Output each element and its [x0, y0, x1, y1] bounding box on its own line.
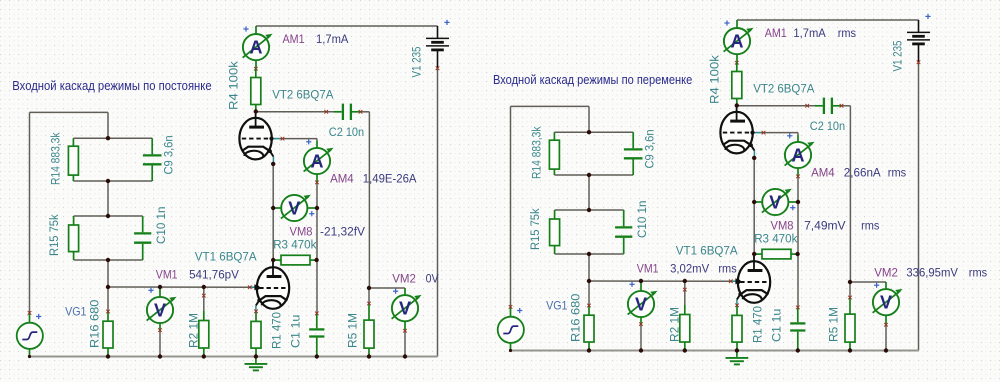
- triode VT2 (panel 2): [720, 106, 754, 153]
- pin x: VT1 grid wire (panel 1): [248, 285, 252, 289]
- rms suffix of VM2 (panel 2): [969, 266, 987, 280]
- svg-text:VM8: VM8: [771, 219, 794, 233]
- name label VM8 (panel 1): [290, 225, 313, 239]
- resistor R16 (panel 1): [103, 312, 113, 357]
- wire: feed R14 block to R15 block (panel 2): [588, 175, 590, 210]
- resistor R4 (panel 1): [251, 69, 261, 112]
- junction: R14/C9 top (panel 2): [587, 130, 591, 134]
- pin x: VG1 top (panel 2): [509, 305, 513, 309]
- wire: R14/C9 bottom node (panel 2): [554, 174, 633, 176]
- pin x: AM4 bottom (panel 2): [796, 175, 800, 179]
- battery V1 (panel 2): [907, 20, 930, 62]
- wire: VM1 bottom to rail (panel 1): [159, 330, 161, 356]
- resistor R4 (panel 2): [732, 63, 742, 106]
- pin x: VT2 grid wire (panel 1): [281, 137, 285, 141]
- resistor R1 (panel 2): [732, 305, 742, 350]
- svg-text:rms: rms: [969, 266, 987, 280]
- wire: bottom ground rail (panel 1): [29, 356, 437, 358]
- wire: battery column right rail (panel 2): [918, 62, 920, 350]
- label VG1 (panel 1): [65, 304, 87, 318]
- wire: top-left horizontal (panel 1): [30, 111, 109, 113]
- pin x: R5 top (panel 2): [848, 296, 852, 300]
- svg-text:C2 10n: C2 10n: [329, 125, 364, 139]
- label VG1 (panel 2): [546, 298, 568, 312]
- plus mark at VM2 (panel 2): [874, 283, 879, 288]
- svg-text:R4 100k: R4 100k: [708, 54, 722, 104]
- junction: R15/C10 top (panel 2): [587, 208, 591, 212]
- svg-text:R15 75k: R15 75k: [47, 214, 61, 256]
- wire: R15/C10 bottom node (panel 1): [74, 259, 143, 261]
- label C2 10n (panel 2): [810, 119, 845, 133]
- wire: AM4 bottom to VM8 node (panel 2): [797, 176, 799, 202]
- resistor R3 (panel 2): [754, 249, 797, 259]
- plus mark at AM4 (panel 1): [306, 139, 311, 144]
- resistor R1 (panel 1): [251, 311, 261, 356]
- svg-text:V: V: [154, 300, 166, 320]
- value of VM2 (panel 2): [906, 266, 958, 280]
- capacitor C9 (panel 1): [143, 138, 162, 181]
- wire: R16 top drop (panel 1): [107, 287, 109, 312]
- value of VM1 (panel 1): [189, 268, 240, 282]
- label R4 100k (panel 2): [708, 54, 722, 104]
- label R2 1M (panel 1): [187, 313, 201, 348]
- wire: VT2 anode node to C2 (panel 1): [256, 111, 334, 113]
- capacitor C1 (panel 2): [790, 307, 805, 350]
- title (panel 1): [12, 79, 211, 93]
- pin x: C2 left (panel 1): [324, 110, 328, 114]
- wire: bottom ground rail (panel 2): [510, 350, 918, 352]
- wire: AM4 bottom to VM8 node (panel 1): [316, 182, 318, 208]
- svg-text:C10 1n: C10 1n: [154, 207, 168, 244]
- svg-text:R1 470: R1 470: [751, 306, 765, 343]
- resistor R15 (panel 1): [69, 216, 79, 260]
- wire: VT2 cathode column to VT1 anode (panel 2): [753, 158, 755, 257]
- name label VM1 (panel 2): [637, 262, 659, 276]
- pin x: R16 top (panel 1): [106, 310, 110, 314]
- pin x: R1 top (panel 1): [254, 310, 258, 314]
- plus mark at VM1 (panel 1): [148, 288, 153, 293]
- svg-text:3,02mV: 3,02mV: [670, 262, 710, 276]
- junction: R14/C9 top (panel 1): [106, 136, 110, 140]
- label R3 470k (panel 2): [754, 232, 798, 246]
- svg-text:rms: rms: [718, 262, 736, 276]
- svg-text:C1 1u: C1 1u: [289, 315, 303, 348]
- resistor R14 (panel 2): [549, 132, 559, 175]
- pin x: R5 top (panel 1): [367, 302, 371, 306]
- svg-text:VT1 6BQ7A: VT1 6BQ7A: [195, 250, 258, 264]
- resistor R2 (panel 1): [199, 311, 209, 357]
- svg-text:336,95mV: 336,95mV: [906, 266, 958, 280]
- resistor R16 (panel 2): [584, 306, 594, 351]
- svg-text:R2 1M: R2 1M: [668, 307, 682, 342]
- svg-text:-21,32fV: -21,32fV: [320, 225, 366, 239]
- junction: rail R1 / ground (panel 2): [735, 348, 739, 352]
- value of AM1 (panel 1): [316, 32, 349, 46]
- svg-text:7,49mV: 7,49mV: [804, 219, 846, 233]
- value of VM8 (panel 1): [320, 225, 366, 239]
- plus mark at VM2 (panel 1): [393, 289, 398, 294]
- wire: battery column right rail (panel 1): [437, 68, 439, 356]
- name label VM1 (panel 1): [156, 268, 178, 282]
- junction: VM8 right / AM4 (panel 2): [796, 200, 800, 204]
- wire: R14/C9 top node (panel 1): [73, 137, 152, 139]
- junction: R5 / VM2 node (panel 1): [367, 286, 371, 290]
- svg-text:R4 100k: R4 100k: [227, 60, 241, 110]
- rms suffix of AM1 (panel 2): [838, 26, 856, 40]
- signal generator VG1 (panel 1): [17, 313, 43, 357]
- label V1 235 (panel 1): [410, 46, 424, 77]
- svg-text:VM2: VM2: [392, 272, 416, 286]
- plus mark at VG1 (panel 1): [36, 314, 41, 319]
- resistor R15 (panel 2): [550, 210, 560, 254]
- pin x: C2 left (panel 2): [805, 104, 809, 108]
- rms suffix of VM1 (panel 2): [718, 262, 736, 276]
- junction: R5 / VM2 node (panel 2): [848, 280, 852, 284]
- label R16 680 (panel 1): [88, 299, 102, 348]
- voltmeter VM8 (panel 1): [273, 194, 317, 221]
- junction: R15/C10 top (panel 1): [106, 214, 110, 218]
- svg-text:C2 10n: C2 10n: [810, 119, 845, 133]
- junction: VT2 anode node (panel 2): [735, 103, 739, 107]
- voltmeter VM2 (panel 1): [392, 288, 422, 331]
- title (panel 2): [493, 73, 692, 87]
- triode VT2 (panel 1): [239, 112, 273, 159]
- label R14 883,3k (panel 1): [49, 132, 63, 185]
- junction: grid bus / R2 (panel 1): [202, 285, 206, 289]
- resistor R3 (panel 1): [273, 255, 316, 265]
- pin x: AM1 bottom / R4 top (panel 2): [735, 61, 739, 65]
- svg-text:VT2 6BQ7A: VT2 6BQ7A: [272, 88, 334, 102]
- junction: R3 right / C1 (panel 1): [314, 258, 318, 262]
- wire: output column down to R5 node (panel 2): [849, 106, 851, 282]
- pin x: R16 top (panel 2): [587, 304, 591, 308]
- svg-text:VT1 6BQ7A: VT1 6BQ7A: [676, 244, 739, 258]
- junction: R14/C9 bottom (panel 1): [106, 179, 110, 183]
- wire: VT2 grid to AM4 (panel 1): [280, 138, 317, 140]
- wire: VM8/R3/C1 column (panel 2): [797, 202, 799, 307]
- junction: grid bus / VM1 (panel 2): [639, 279, 643, 283]
- name label VM8 (panel 2): [771, 219, 794, 233]
- svg-text:Входной каскад режимы по посто: Входной каскад режимы по постоянке: [12, 79, 211, 93]
- svg-text:V1 235: V1 235: [891, 40, 905, 71]
- pin x: VM2 bottom (panel 1): [403, 329, 407, 333]
- wire: teal stub at VT2 cathode pin (panel 2): [753, 151, 755, 158]
- svg-text:V: V: [399, 299, 411, 319]
- svg-text:R5 1M: R5 1M: [346, 313, 360, 348]
- pin x: C2 right (panel 1): [359, 110, 363, 114]
- wire: R16 top drop (panel 2): [588, 281, 590, 306]
- junction: rail R1 / ground (panel 1): [254, 354, 258, 358]
- junction: rail R2 (panel 2): [683, 348, 687, 352]
- triode VT1 (panel 2): [737, 256, 771, 303]
- plus mark at VM8 (panel 2): [790, 205, 795, 210]
- svg-text:rms: rms: [861, 219, 879, 233]
- pin x: C1 top (panel 1): [315, 312, 319, 316]
- wire: top supply rail (panel 1): [256, 25, 438, 27]
- wire: R15/C10 top node (panel 1): [74, 215, 143, 217]
- ground symbol (panel 2): [726, 351, 749, 365]
- pin x: AM4 bottom (panel 1): [315, 181, 319, 185]
- label VT1 6BQ7A (panel 1): [195, 250, 258, 264]
- wire: R2 top drop (panel 2): [684, 281, 686, 305]
- triode VT1 (panel 1): [256, 262, 290, 309]
- svg-text:2,66nA: 2,66nA: [844, 166, 882, 180]
- junction: grid bus / R16 (panel 1): [106, 285, 110, 289]
- svg-text:A: A: [311, 151, 324, 171]
- label VT1 6BQ7A (panel 2): [676, 244, 739, 258]
- junction: rail R5 (panel 1): [367, 354, 371, 358]
- svg-text:A: A: [792, 145, 805, 165]
- svg-text:R16 680: R16 680: [569, 293, 583, 342]
- junction: grid bus / R2 (panel 2): [683, 279, 687, 283]
- value of AM4 (panel 1): [363, 172, 418, 186]
- name label VM2 (panel 1): [392, 272, 416, 286]
- label C9 3,6n (panel 2): [643, 129, 657, 168]
- input arrow into VT1 grid (panel 1): [254, 284, 260, 290]
- junction: rail R16 (panel 2): [587, 348, 591, 352]
- svg-text:1,7mA: 1,7mA: [793, 26, 826, 40]
- label R2 1M (panel 2): [668, 307, 682, 342]
- pin x: R2 top (panel 1): [202, 294, 206, 298]
- label R1 470 (panel 2): [751, 306, 765, 343]
- pin x: VM1 bottom (panel 1): [158, 328, 162, 332]
- wire: feed into R14/C9 block (panel 2): [588, 106, 590, 132]
- wire: grid bus to VT1 (panel 1): [108, 286, 250, 288]
- wire: AM4 top corner drop (panel 2): [797, 133, 799, 135]
- svg-text:R14 883,3k: R14 883,3k: [530, 126, 544, 179]
- wire: feed R15 block to grid bus (panel 1): [107, 260, 109, 287]
- value of VM2 (panel 1): [426, 272, 440, 286]
- svg-text:C1 1u: C1 1u: [770, 309, 784, 342]
- plus mark at battery V1 (panel 1): [444, 20, 449, 25]
- junction: VG1 bottom corner (panel 1): [28, 355, 31, 358]
- wire: R15/C10 top node (panel 2): [555, 209, 624, 211]
- junction: VM8 right / AM4 (panel 1): [315, 206, 319, 210]
- svg-text:VM1: VM1: [156, 268, 178, 282]
- junction: R14/C9 bottom (panel 2): [587, 173, 591, 177]
- svg-text:AM4: AM4: [330, 172, 354, 186]
- value of AM4 (panel 2): [844, 166, 882, 180]
- wire: R15/C10 bottom node (panel 2): [555, 253, 624, 255]
- junction: rail C1 (panel 1): [315, 354, 319, 358]
- svg-text:AM1: AM1: [765, 26, 787, 40]
- svg-text:R15 75k: R15 75k: [528, 208, 542, 250]
- junction: VT2 cathode node (panel 1): [271, 162, 275, 166]
- svg-text:R14 883,3k: R14 883,3k: [49, 132, 63, 185]
- svg-text:AM1: AM1: [283, 32, 305, 46]
- svg-text:V: V: [635, 294, 647, 314]
- wire: VT2 cathode column to VT1 anode (panel 1): [272, 164, 274, 263]
- wire: left input rail (panel 1): [29, 112, 31, 313]
- name label AM1 (panel 1): [283, 32, 305, 46]
- label VT2 6BQ7A (panel 2): [753, 82, 815, 96]
- resistor R5 (panel 2): [845, 298, 855, 351]
- wire: teal stub at VT2 grid pin (panel 1): [272, 138, 280, 140]
- plus mark at AM4 (panel 2): [787, 133, 792, 138]
- wire: feed R15 block to grid bus (panel 2): [588, 254, 590, 281]
- capacitor C1 (panel 1): [309, 313, 324, 356]
- ammeter AM1 (panel 1): [243, 26, 273, 69]
- capacitor C2 (panel 1): [334, 104, 361, 120]
- voltmeter VM8 (panel 2): [754, 188, 798, 215]
- rms suffix of VM8 (panel 2): [861, 219, 879, 233]
- svg-text:V: V: [288, 198, 300, 218]
- svg-text:AM4: AM4: [811, 166, 835, 180]
- pin x: battery bottom (panel 2): [917, 60, 921, 64]
- pin x: C1 top (panel 2): [796, 306, 800, 310]
- value of VM1 (panel 2): [670, 262, 710, 276]
- wire: AM4 top corner drop (panel 1): [316, 139, 318, 141]
- voltmeter VM1 (panel 1): [147, 287, 177, 330]
- svg-text:R1 470: R1 470: [270, 312, 284, 349]
- svg-text:R3 470k: R3 470k: [273, 238, 317, 252]
- wire: teal stub at VT1 grid pin (panel 1): [250, 286, 256, 288]
- ground symbol (panel 1): [245, 357, 268, 371]
- label R4 100k (panel 1): [227, 60, 241, 110]
- pin x: C2 right (panel 2): [840, 104, 844, 108]
- junction: rail R5 (panel 2): [848, 348, 852, 352]
- svg-text:Входной каскад режимы по перем: Входной каскад режимы по переменке: [493, 73, 692, 87]
- label C1 1u (panel 1): [289, 315, 303, 348]
- wire: VT2 grid to AM4 (panel 2): [761, 132, 798, 134]
- pin x: R1 top (panel 2): [735, 304, 739, 308]
- label R15 75k (panel 2): [528, 208, 542, 250]
- voltmeter VM1 (panel 2): [628, 281, 658, 324]
- svg-text:V: V: [769, 192, 781, 212]
- junction: VT2 anode node (panel 1): [254, 109, 258, 113]
- svg-text:A: A: [250, 38, 263, 58]
- junction: rail VM1 (panel 2): [639, 348, 643, 352]
- svg-text:1,49E-26A: 1,49E-26A: [363, 172, 418, 186]
- pin x: VM2 bottom (panel 2): [884, 323, 888, 327]
- wire: grid bus to VT1 (panel 2): [589, 280, 731, 282]
- wire: C2 to output column (panel 2): [842, 105, 851, 107]
- label R15 75k (panel 1): [47, 214, 61, 256]
- capacitor C10 (panel 2): [615, 210, 632, 254]
- wire: C2 to output column (panel 1): [361, 111, 370, 113]
- wire: teal stub at VT1 cathode pin (panel 2): [736, 300, 738, 307]
- ammeter AM1 (panel 2): [724, 20, 754, 63]
- label R1 470 (panel 1): [270, 312, 284, 349]
- name label AM4 (panel 1): [330, 172, 354, 186]
- wire: left input rail (panel 2): [510, 106, 512, 307]
- svg-text:rms: rms: [888, 166, 906, 180]
- pin x: VT1 grid wire (panel 2): [729, 279, 733, 283]
- label C1 1u (panel 2): [770, 309, 784, 342]
- plus mark at VM8 (panel 1): [309, 211, 314, 216]
- value of VM8 (panel 2): [804, 219, 846, 233]
- voltmeter VM2 (panel 2): [873, 282, 903, 325]
- label R5 1M (panel 2): [827, 307, 841, 342]
- resistor R14 (panel 1): [68, 138, 78, 181]
- plus mark at VM1 (panel 2): [629, 282, 634, 287]
- wire: feed R14 block to R15 block (panel 1): [107, 181, 109, 216]
- capacitor C10 (panel 1): [134, 216, 151, 260]
- pin x: VM1 bottom (panel 2): [639, 322, 643, 326]
- wire: teal stub at VT2 grid pin (panel 2): [753, 132, 761, 134]
- wire: R5 node to VM2 branch (panel 2): [850, 281, 886, 283]
- junction: R3 right / C1 (panel 2): [795, 252, 799, 256]
- svg-text:C9 3,6n: C9 3,6n: [162, 135, 176, 174]
- pin x: VT2 grid wire (panel 2): [762, 131, 766, 135]
- wire: VM2 bottom to rail (panel 1): [404, 331, 406, 357]
- wire: teal stub at VT1 grid pin (panel 2): [731, 280, 737, 282]
- wire: top supply rail (panel 2): [737, 19, 919, 21]
- input arrow into VT1 grid (panel 2): [735, 278, 741, 284]
- svg-text:A: A: [731, 32, 744, 52]
- junction: VT2 cathode node (panel 2): [752, 156, 756, 160]
- junction: R3 left (panel 2): [752, 252, 756, 256]
- label V1 235 (panel 2): [891, 40, 905, 71]
- label C2 10n (panel 1): [329, 125, 364, 139]
- rms suffix of AM4 (panel 2): [888, 166, 906, 180]
- wire: teal stub at VT1 cathode pin (panel 1): [255, 306, 257, 313]
- svg-text:R2 1M: R2 1M: [187, 313, 201, 348]
- wire: top-left horizontal (panel 2): [511, 105, 590, 107]
- value of AM1 (panel 2): [793, 26, 826, 40]
- junction: VM8 left (panel 1): [271, 206, 275, 210]
- wire: VM8/R3/C1 column (panel 1): [316, 208, 318, 313]
- label R14 883,3k (panel 2): [530, 126, 544, 179]
- junction: R15/C10 bottom (panel 1): [106, 258, 110, 262]
- pin x: AM1 bottom / R4 top (panel 1): [254, 67, 258, 71]
- svg-text:R5 1M: R5 1M: [827, 307, 841, 342]
- wire: R5 node top lead (panel 2): [849, 282, 851, 298]
- label C10 1n (panel 1): [154, 207, 168, 244]
- svg-text:VG1: VG1: [65, 304, 87, 318]
- pin x: battery bottom (panel 1): [436, 66, 440, 70]
- name label AM1 (panel 2): [765, 26, 787, 40]
- pin x: VG1 top (panel 1): [28, 311, 32, 315]
- wire: teal stub at VT2 cathode pin (panel 1): [272, 157, 274, 164]
- svg-text:VG1: VG1: [546, 298, 568, 312]
- name label VM2 (panel 2): [874, 266, 898, 280]
- label VT2 6BQ7A (panel 1): [272, 88, 334, 102]
- svg-text:C9 3,6n: C9 3,6n: [643, 129, 657, 168]
- svg-text:R16 680: R16 680: [88, 299, 102, 348]
- signal generator VG1 (panel 2): [498, 307, 524, 351]
- svg-text:1,7mA: 1,7mA: [316, 32, 349, 46]
- svg-text:C10 1n: C10 1n: [635, 201, 649, 238]
- junction: R15/C10 bottom (panel 2): [587, 252, 591, 256]
- wire: VM1 bottom to rail (panel 2): [640, 324, 642, 350]
- svg-text:VT2 6BQ7A: VT2 6BQ7A: [753, 82, 815, 96]
- label C10 1n (panel 2): [635, 201, 649, 238]
- junction: VM8 left (panel 2): [752, 200, 756, 204]
- ammeter AM4 (panel 1): [304, 141, 334, 182]
- wire: output column down to R5 node (panel 1): [368, 112, 370, 288]
- label R16 680 (panel 2): [569, 293, 583, 342]
- resistor R5 (panel 1): [364, 304, 374, 357]
- junction: grid bus / VM1 (panel 1): [158, 285, 162, 289]
- junction: rail VM1 (panel 1): [158, 354, 162, 358]
- label R3 470k (panel 1): [273, 238, 317, 252]
- label R5 1M (panel 1): [346, 313, 360, 348]
- pin x: R2 top (panel 2): [683, 288, 687, 292]
- svg-text:VM8: VM8: [290, 225, 313, 239]
- wire: R2 top drop (panel 1): [203, 287, 205, 311]
- capacitor C9 (panel 2): [624, 132, 643, 175]
- junction: VG1 bottom corner (panel 2): [509, 349, 512, 352]
- junction: R3 left (panel 1): [271, 258, 275, 262]
- junction: rail R2 (panel 1): [202, 354, 206, 358]
- svg-text:V1 235: V1 235: [410, 46, 424, 77]
- resistor R2 (panel 2): [680, 305, 690, 351]
- wire: VT2 anode node to C2 (panel 2): [737, 105, 815, 107]
- svg-text:0V: 0V: [426, 272, 440, 286]
- wire: R5 node top lead (panel 1): [368, 288, 370, 304]
- name label AM4 (panel 2): [811, 166, 835, 180]
